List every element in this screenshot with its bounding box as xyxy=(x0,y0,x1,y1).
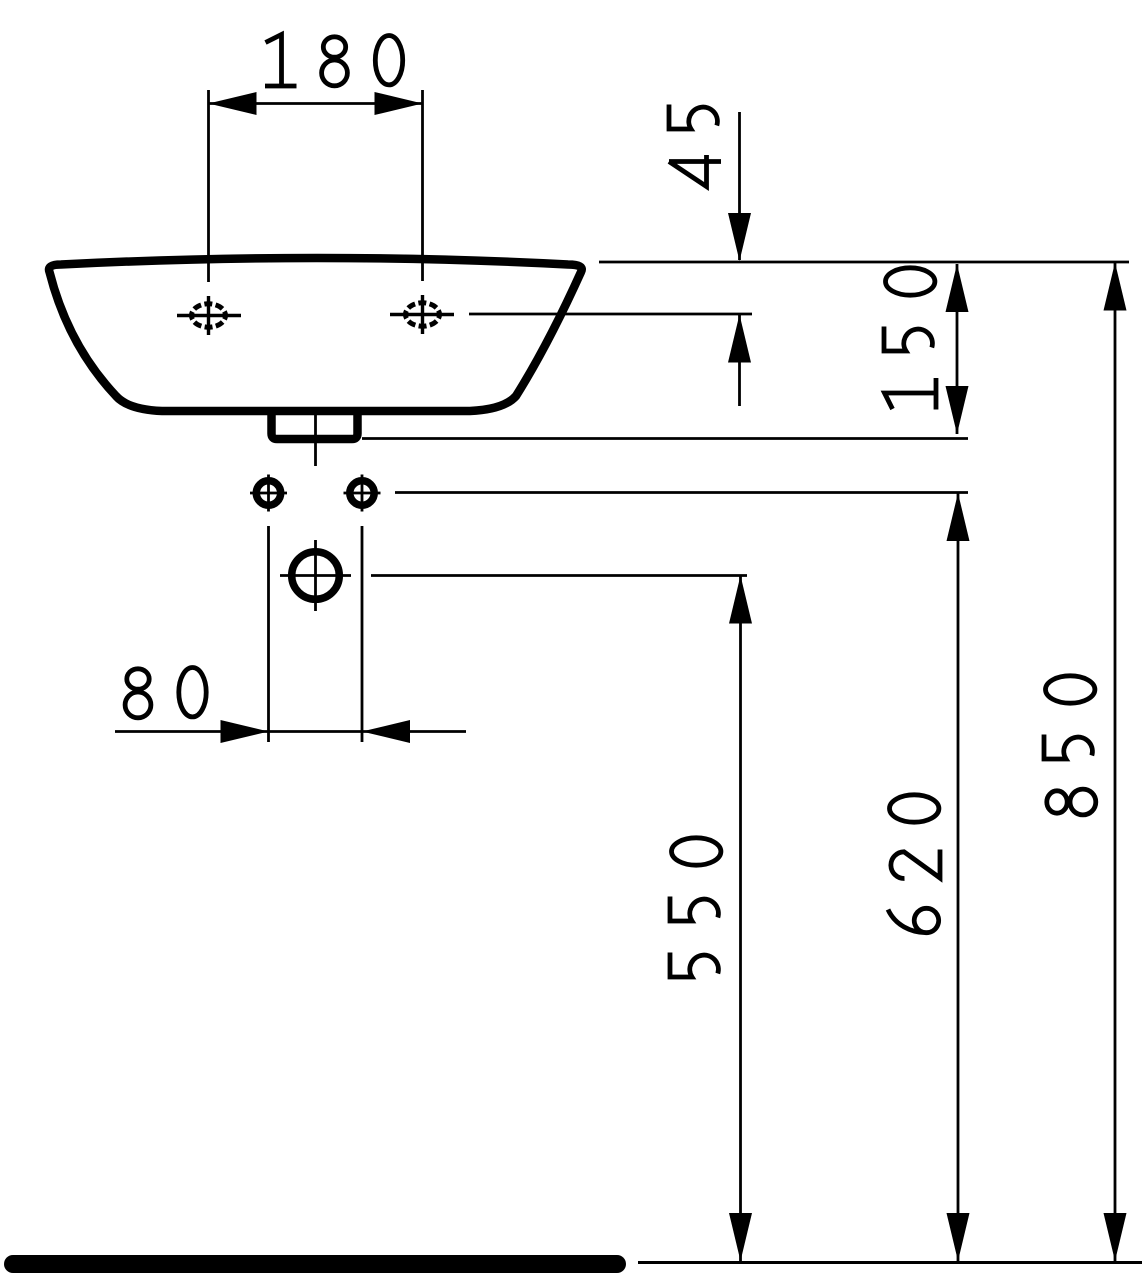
dim 150: dimension line xyxy=(956,264,959,434)
mounting hole right xyxy=(350,481,374,505)
dim 80: left tail line xyxy=(115,730,269,733)
dim 45: upper tail line xyxy=(738,112,741,260)
mounting hole left xyxy=(256,481,280,505)
dim 620: dimension line xyxy=(957,493,960,1261)
dim 45: lower arrow (up) xyxy=(728,315,751,363)
leader from right faucet hole to 45-dim xyxy=(469,313,752,316)
dim 180: text xyxy=(265,35,403,87)
dim 620: top arrow (up) xyxy=(947,493,970,541)
faucet hole left: crosshair xyxy=(177,296,241,335)
faucet hole right: crosshair xyxy=(390,295,454,334)
extension line below left mounting hole xyxy=(267,526,270,742)
trap centerline xyxy=(314,413,317,466)
dim 550: bottom arrow (down) xyxy=(729,1213,752,1261)
dim 150: top arrow (up) xyxy=(946,264,969,312)
dim 80: text xyxy=(125,668,206,718)
dim 180: dimension line xyxy=(209,102,423,105)
dim 180: right extension line xyxy=(421,90,424,281)
floor: thin line xyxy=(638,1261,1142,1264)
dim 45: upper arrow (down) xyxy=(728,213,751,261)
dim 180: left extension line xyxy=(207,90,210,282)
dim 150: bottom arrow (down) xyxy=(946,386,969,434)
overflow hole (large circle) xyxy=(292,552,340,600)
leader from right mounting hole to 620-dim xyxy=(395,491,968,494)
dim 180: right arrow xyxy=(375,92,423,115)
dim 550: dimension line xyxy=(739,576,742,1262)
mounting hole right crosshair xyxy=(344,475,381,512)
dim 850: top arrow (up) xyxy=(1104,263,1127,311)
faucet hole left: dashed circle xyxy=(192,304,226,327)
dim 80: left arrow (points right) xyxy=(221,720,269,743)
dim 550: top arrow (up) xyxy=(729,576,752,624)
extension line below right mounting hole xyxy=(361,526,364,742)
trap outlet under basin xyxy=(272,408,358,439)
dim 850: text xyxy=(1044,676,1096,815)
dim 550: text xyxy=(670,838,721,977)
dim 80: right tail line xyxy=(362,730,466,733)
dim 45: text xyxy=(669,105,721,187)
dim 620: bottom arrow (down) xyxy=(947,1213,970,1261)
dim 850: dimension line xyxy=(1114,262,1117,1261)
mounting hole left crosshair xyxy=(250,475,287,512)
dim 80: line between extensions xyxy=(269,730,363,733)
top reference line at rim level xyxy=(599,261,1129,264)
basin outline xyxy=(49,258,582,411)
leader from overflow hole to 550-dim xyxy=(371,574,747,577)
dim 45: lower tail line xyxy=(738,315,741,407)
line from trap bottom to 150-dim xyxy=(362,437,968,440)
dim 80: right arrow (points left) xyxy=(362,720,410,743)
overflow hole crosshair xyxy=(280,540,351,611)
dim 850: bottom arrow (down) xyxy=(1104,1213,1127,1261)
dim 620: text xyxy=(888,795,940,933)
floor: thick bar xyxy=(4,1255,626,1273)
dim 150: text xyxy=(884,268,936,410)
faucet hole right: dashed circle xyxy=(406,303,440,326)
dim 180: left arrow xyxy=(209,92,257,115)
